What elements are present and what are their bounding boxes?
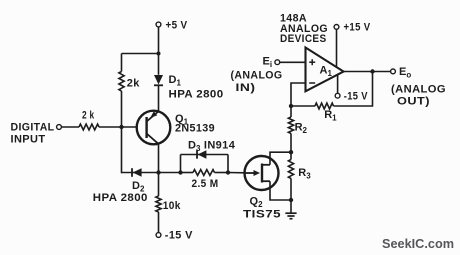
svg-text:10k: 10k (163, 200, 181, 212)
wire top branch to 2k (122, 53, 159, 55)
node base junction (119, 125, 123, 129)
diode D1 (154, 74, 224, 101)
wire parallel right stub (227, 155, 229, 173)
wire 10k to -15V (158, 212, 160, 232)
svg-text:-15 V: -15 V (165, 230, 193, 242)
terminal -15V (left) (156, 230, 193, 242)
svg-text:(ANALOG: (ANALOG (391, 83, 446, 95)
diode D2 (93, 168, 148, 204)
svg-text:DIGITAL: DIGITAL (11, 122, 55, 134)
wire left rail to D2 line (121, 127, 123, 173)
svg-text:(ANALOG: (ANALOG (231, 69, 283, 81)
watermark SeekIC.com (382, 237, 454, 251)
svg-text:HPA 2800: HPA 2800 (93, 192, 148, 204)
svg-text:OUT): OUT) (397, 95, 430, 107)
resistor 10k (156, 196, 181, 212)
resistor 2k (input, horizontal) (79, 110, 99, 130)
resistor R2 (288, 117, 307, 135)
transistor Q1 2N5139 (137, 111, 215, 145)
terminal DIGITAL INPUT (11, 122, 62, 146)
wire Q2 drain to R2/R3 node (270, 152, 291, 165)
wire D1 to Q1 emitter (158, 85, 160, 111)
wire 2.5M leads (181, 172, 229, 174)
wire +15V to op-amp (336, 30, 338, 68)
label 148A ANALOG DEVICES (280, 12, 328, 45)
wire D2 line (122, 172, 159, 174)
svg-text:SeekIC.com: SeekIC.com (382, 237, 454, 251)
transistor Q2 TIS75 (243, 156, 281, 220)
svg-text:IN): IN) (236, 82, 256, 94)
resistor R3 (288, 160, 311, 181)
svg-text:+5 V: +5 V (166, 19, 188, 31)
svg-text:-15 V: -15 V (344, 91, 368, 103)
wire D3 branch top (181, 154, 229, 156)
svg-text:2.5 M: 2.5 M (192, 178, 219, 190)
wire input to 2k (62, 126, 79, 128)
node output junction (370, 69, 374, 73)
wire feedback right + up to output (334, 72, 373, 107)
terminal Ei ANALOG IN (231, 56, 283, 94)
wire Q1 collector down (158, 144, 160, 173)
node inverting input junction (289, 104, 293, 108)
terminal +5V (156, 19, 188, 31)
node ground junction (289, 198, 293, 202)
svg-text:2N5139: 2N5139 (175, 123, 215, 135)
svg-text:+15 V: +15 V (344, 22, 371, 34)
node parallel right (226, 170, 230, 174)
terminal Eo ANALOG OUT (391, 66, 446, 108)
node top branch junction (157, 52, 161, 56)
wire -15V stub (337, 75, 339, 94)
wire feedback left: node to R1 (291, 105, 315, 107)
terminal -15V (op-amp) (335, 91, 368, 103)
wire +5V rail down to D1 (158, 27, 160, 75)
svg-text:2 k: 2 k (82, 110, 95, 122)
wire - input to inverting node (291, 83, 306, 106)
wire left rail to base node (121, 91, 123, 127)
wire collector node to 10k (158, 173, 160, 197)
op-amp A1 (306, 48, 344, 92)
node parallel left (178, 170, 182, 174)
node drain junction (289, 150, 293, 154)
svg-text:TIS75: TIS75 (243, 208, 281, 220)
svg-text:INPUT: INPUT (11, 134, 46, 146)
resistor R1 (315, 103, 337, 122)
wire 2k to Q1 base (99, 126, 137, 128)
svg-text:D3 IN914: D3 IN914 (188, 139, 236, 153)
resistor 2k (vertical) (119, 72, 140, 92)
node collector junction (156, 170, 160, 174)
svg-text:DEVICES: DEVICES (280, 33, 327, 45)
wire left rail upper (121, 54, 123, 72)
svg-text:HPA 2800: HPA 2800 (169, 89, 224, 101)
resistor 2.5M (192, 170, 219, 190)
wire Q2 source to ground node (270, 181, 291, 200)
svg-text:2k: 2k (127, 78, 140, 90)
wire drain node to R3 (290, 152, 292, 159)
wire to Q2 gate (228, 172, 245, 174)
wire Ei to + input (280, 61, 306, 63)
wire R2 to drain node (290, 134, 292, 153)
wire R3 to ground node (290, 179, 292, 201)
diode D3 IN914 (188, 139, 236, 158)
terminal +15V (334, 22, 371, 34)
ground (285, 200, 296, 219)
wire op-amp output (344, 71, 391, 73)
wire inverting node to R2 (290, 106, 292, 117)
wire parallel left stub (180, 155, 182, 173)
wire collector node to parallel pair (159, 172, 181, 174)
